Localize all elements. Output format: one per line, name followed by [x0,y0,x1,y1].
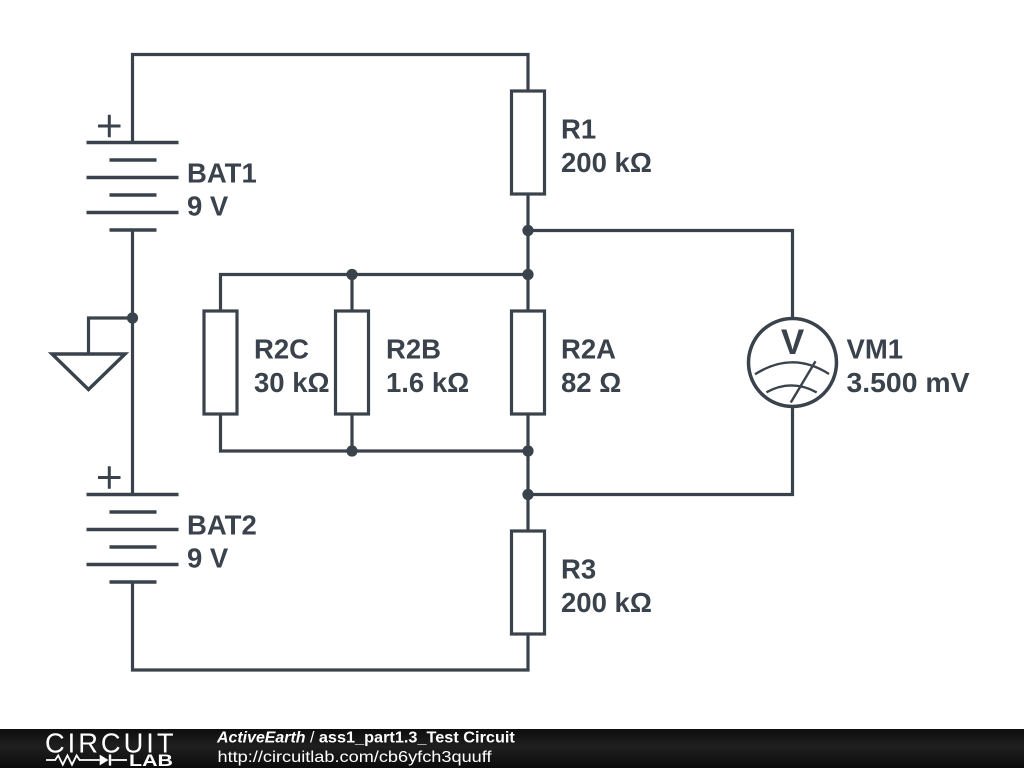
node bottom bus R2B [346,445,357,456]
battery BAT1 [87,115,179,230]
resistor R2C [204,311,237,414]
node junction above R3 [522,489,533,500]
label R2B 1.6k [386,334,469,398]
svg-text:200 kΩ: 200 kΩ [561,147,652,178]
voltmeter VM1 [749,319,837,407]
svg-text:30 kΩ: 30 kΩ [254,367,330,398]
footer bar [0,729,1024,768]
svg-text:http://circuitlab.com/cb6yfch3: http://circuitlab.com/cb6yfch3quuff [218,749,493,766]
svg-text:R2B: R2B [386,334,441,365]
svg-text:R3: R3 [561,554,596,585]
resistor R1 [512,91,545,194]
wire: BAT2 minus to R3 bottom (bottom rail) [133,582,529,670]
node top bus R2B [346,269,357,280]
svg-text:1.6 kΩ: 1.6 kΩ [386,367,469,398]
label R1 200k [561,114,652,178]
svg-text:9 V: 9 V [187,543,229,574]
svg-text:BAT2: BAT2 [187,510,257,541]
wire: top bus of parallel resistors [221,275,529,312]
svg-text:9 V: 9 V [187,191,229,222]
resistor R2B [336,311,369,414]
wire: R2A bottom to R3 top [526,414,529,531]
wire top: BAT1 plus to R1 top [133,55,529,143]
label R3 200k [561,554,652,618]
svg-text:V: V [781,323,805,362]
wire: R2B top pin [350,275,353,312]
label R2C 30k [254,334,330,398]
wire: junction to voltmeter bottom [528,406,793,495]
wire: BAT1 minus to BAT2 plus [131,230,134,495]
battery BAT2 [87,466,179,582]
node ground junction [127,312,138,323]
resistor R2A [512,311,545,414]
svg-text:R1: R1 [561,114,596,145]
wire: R2B bottom pin [350,414,353,451]
svg-text:BAT1: BAT1 [187,158,257,189]
wire: R1 bottom through junctions to R2A top [526,194,529,311]
svg-text:82 Ω: 82 Ω [561,367,621,398]
svg-text:LAB: LAB [129,752,173,768]
node junction below R1 [522,225,533,236]
ground [52,318,133,390]
label VM1 3.500mV [847,334,971,398]
wire: junction to voltmeter top [528,231,793,321]
node top bus R2A [522,269,533,280]
svg-text:3.500 mV: 3.500 mV [847,367,971,398]
resistor R3 [512,531,545,634]
svg-text:R2C: R2C [254,334,309,365]
label BAT2 9V [187,510,257,574]
label BAT1 9V [187,158,257,222]
svg-text:VM1: VM1 [847,334,904,365]
label R2A 82 [561,334,621,398]
svg-text:ActiveEarth / ass1_part1.3_Tes: ActiveEarth / ass1_part1.3_Test Circuit [216,730,516,747]
svg-text:R2A: R2A [561,334,616,365]
wire: bottom bus of parallel resistors [221,414,529,451]
node bottom bus R2A [522,445,533,456]
svg-text:200 kΩ: 200 kΩ [561,587,652,618]
footer logo glyph resistor diode [46,754,127,765]
